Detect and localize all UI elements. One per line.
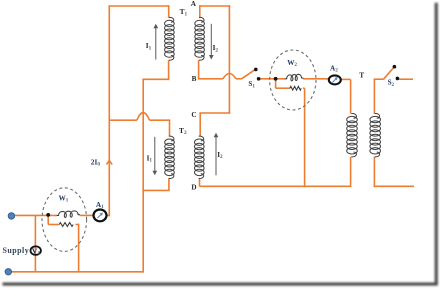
svg-text:Supply: Supply xyxy=(3,246,30,255)
svg-text:A: A xyxy=(191,0,197,8)
svg-text:D: D xyxy=(191,184,196,192)
svg-text:C: C xyxy=(191,111,196,119)
svg-text:B: B xyxy=(192,75,197,83)
svg-text:T: T xyxy=(359,71,364,80)
